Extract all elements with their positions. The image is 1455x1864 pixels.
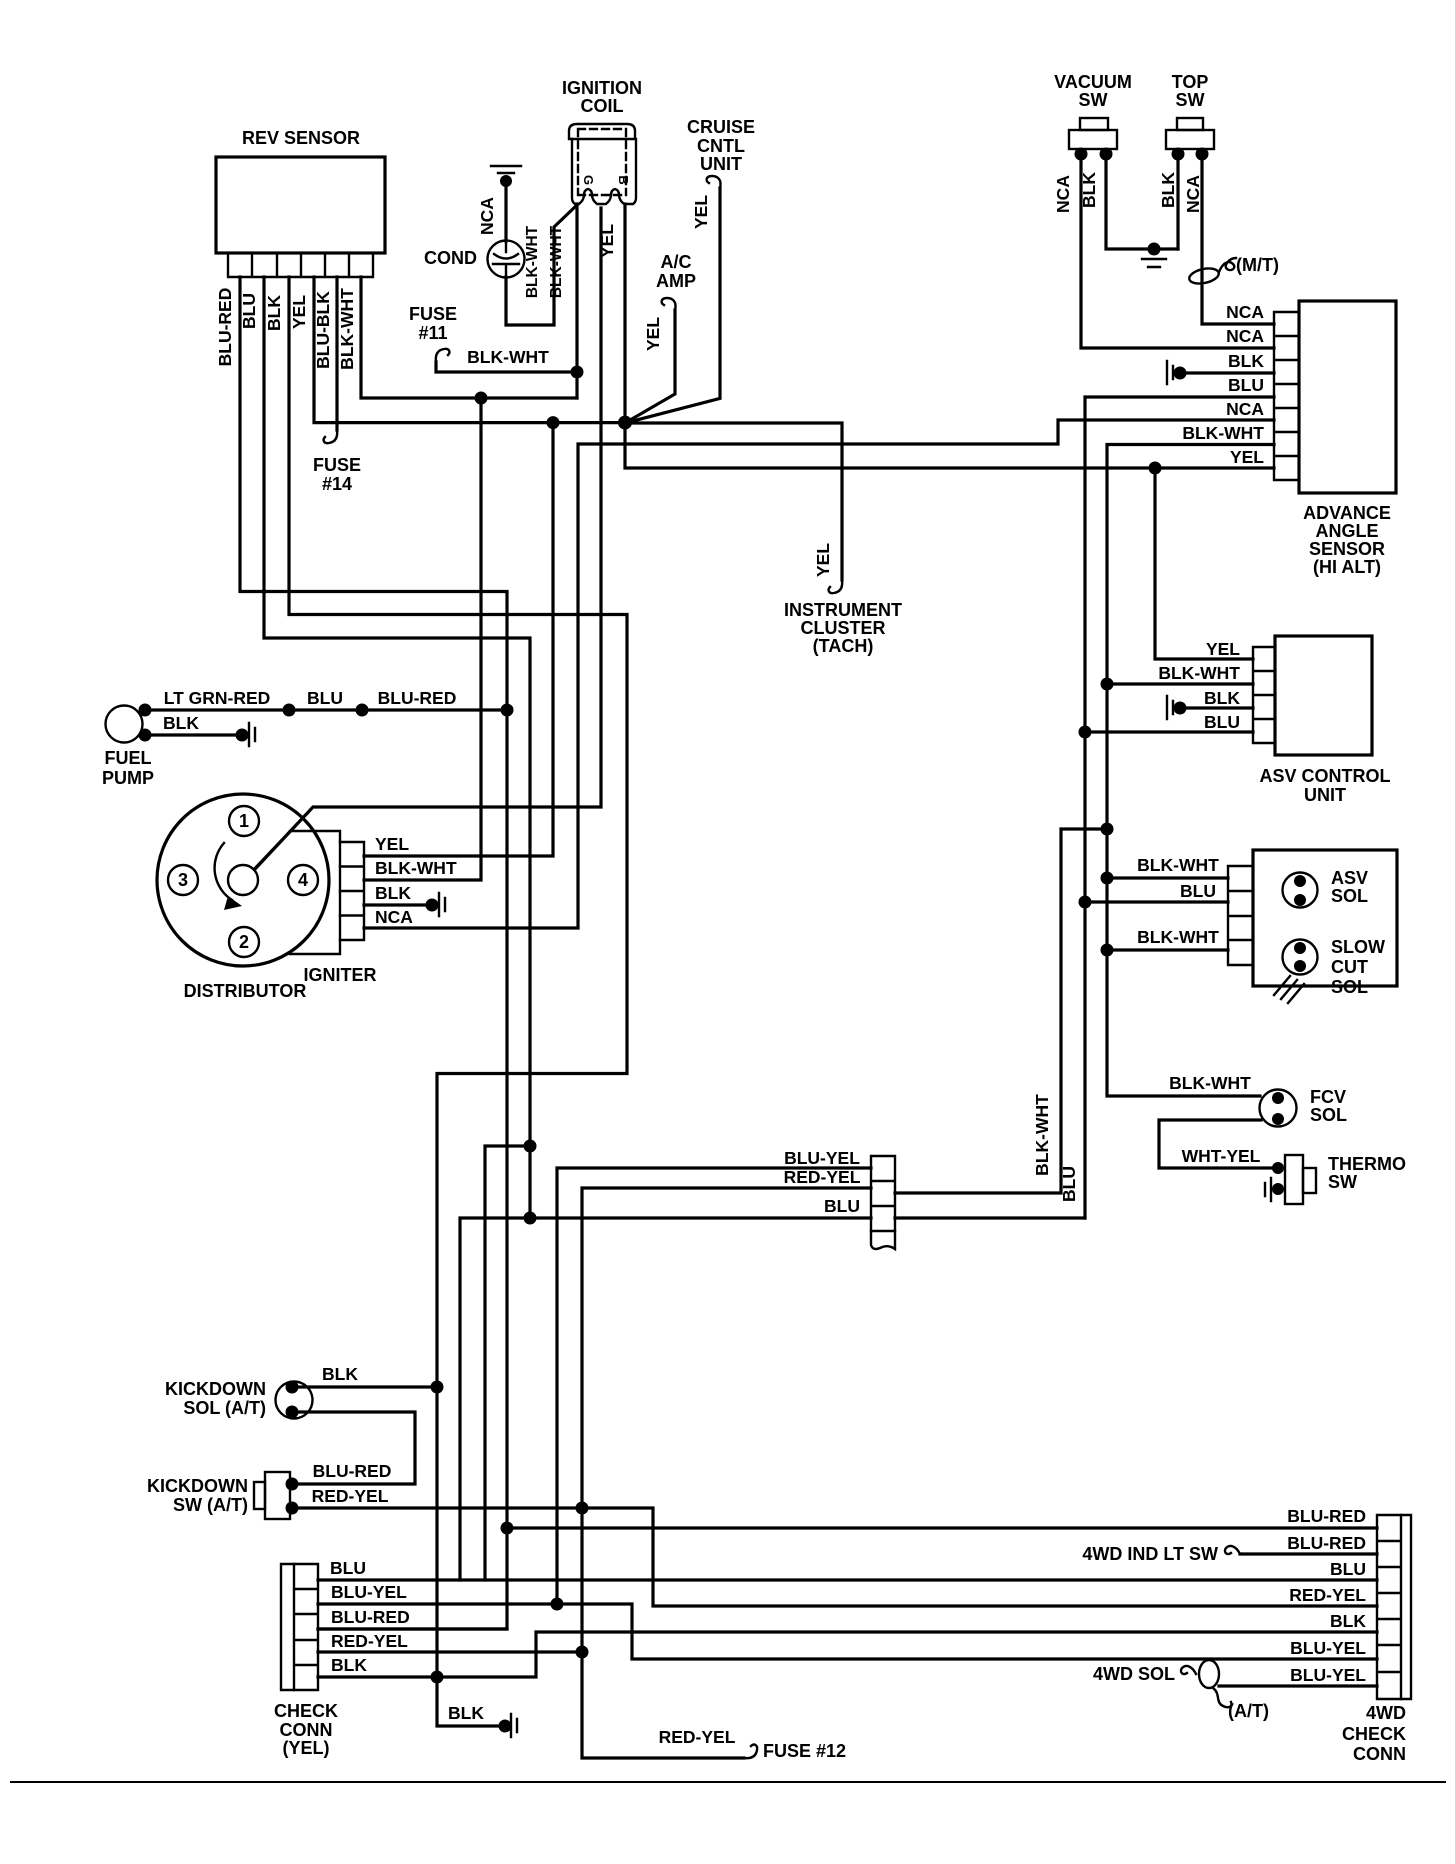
ASV control pin row — [1253, 647, 1275, 743]
ground above COND — [491, 166, 521, 173]
svg-text:BLK-WHT: BLK-WHT — [1158, 663, 1240, 683]
svg-text:AMP: AMP — [656, 271, 696, 291]
svg-text:UNIT: UNIT — [1304, 785, 1346, 805]
wire BLU-RED net: REV pin1 down, right at y592, down x507 to CHECK CONN BLU-RED row — [240, 277, 507, 1629]
svg-text:PUMP: PUMP — [102, 768, 154, 788]
node main YEL junction — [618, 416, 632, 430]
svg-text:THERMO: THERMO — [1328, 1154, 1406, 1174]
svg-text:A/C: A/C — [661, 252, 692, 272]
svg-text:FUSE #12: FUSE #12 — [763, 1741, 846, 1761]
inline connector oval M/T — [1188, 266, 1220, 286]
wire fuel pump feed line — [145, 708, 507, 711]
svg-text:(TACH): (TACH) — [813, 636, 874, 656]
ground igniter — [426, 899, 439, 912]
solenoid box ASV/SLOW CUT — [1253, 850, 1397, 986]
CHECK CONN shell — [281, 1564, 294, 1690]
ignition coil body — [569, 124, 636, 204]
svg-text:BLK-WHT: BLK-WHT — [1032, 1094, 1052, 1176]
instrument cluster hook — [829, 580, 843, 593]
wire WHT-YEL FCV to thermo — [1159, 1120, 1277, 1168]
svg-text:YEL: YEL — [691, 195, 711, 229]
svg-text:CLUSTER: CLUSTER — [801, 618, 886, 638]
wire BLK-WHT to ASV SOL — [1107, 876, 1228, 879]
node igniter BLK-WHT feed branches at x481 — [475, 392, 488, 405]
svg-text:BLU-RED: BLU-RED — [331, 1607, 410, 1627]
KICKDOWN SOL circle — [276, 1382, 313, 1419]
svg-text:NCA: NCA — [1053, 175, 1073, 213]
svg-text:SW: SW — [1079, 90, 1108, 110]
FCV SOL circle — [1260, 1090, 1297, 1127]
wire BLU branch left-down x460 to CHECK CONN BLU row — [460, 1218, 530, 1580]
node fuel line 2 — [356, 704, 369, 717]
svg-text:BLK-WHT: BLK-WHT — [467, 347, 549, 367]
svg-text:INSTRUMENT: INSTRUMENT — [784, 600, 902, 620]
wire check conn BLU-RED row — [318, 1627, 507, 1630]
top switch symbol — [1166, 118, 1214, 149]
svg-text:CONN: CONN — [280, 1720, 333, 1740]
svg-text:FUEL: FUEL — [105, 748, 152, 768]
wire ASV pin2 BLK-WHT — [1107, 682, 1253, 685]
svg-text:IGNITION: IGNITION — [562, 78, 642, 98]
svg-text:YEL: YEL — [375, 834, 409, 854]
svg-text:FUSE: FUSE — [409, 304, 457, 324]
svg-text:FCV: FCV — [1310, 1087, 1346, 1107]
svg-text:4WD: 4WD — [1366, 1703, 1406, 1723]
wire YEL from advance line down to ASV control pin1 — [1155, 468, 1253, 659]
middle connector pin boxes — [871, 1156, 895, 1231]
svg-text:BLU-YEL: BLU-YEL — [1290, 1665, 1366, 1685]
svg-text:BLK: BLK — [1204, 688, 1240, 708]
svg-text:CNTL: CNTL — [697, 136, 745, 156]
SLOW CUT hatch marks — [1274, 976, 1304, 1003]
CRUISE hook — [707, 176, 721, 188]
svg-text:CHECK: CHECK — [1342, 1724, 1406, 1744]
node YEL tach branch at junction horizontal — [547, 416, 560, 429]
wire vacuum NCA down to advance pin2 — [1081, 154, 1274, 348]
svg-text:ADVANCE: ADVANCE — [1303, 503, 1391, 523]
node BLU to ASV control — [1079, 726, 1092, 739]
svg-text:RED-YEL: RED-YEL — [784, 1167, 861, 1187]
svg-text:G: G — [581, 175, 596, 185]
wire check conn BLU-YEL row jog to 4wd pin6 — [318, 1604, 1377, 1659]
svg-text:BLU: BLU — [824, 1196, 860, 1216]
svg-text:YEL: YEL — [1230, 447, 1264, 467]
wire igniter BLK-WHT feed down x481 — [364, 398, 481, 880]
svg-text:BLK: BLK — [1228, 351, 1264, 371]
vacuum sw terminal dots — [1075, 148, 1088, 161]
svg-text:CUT: CUT — [1331, 957, 1368, 977]
4wd sol squiggle to A/T — [1213, 1688, 1232, 1707]
wire igniter BLK to ground — [364, 903, 432, 906]
thermo terminal dots — [1272, 1162, 1284, 1174]
svg-text:COIL: COIL — [581, 96, 624, 116]
middle connector tail curl — [871, 1231, 895, 1249]
svg-text:4: 4 — [298, 870, 308, 890]
top sw terminal dots — [1172, 148, 1185, 161]
svg-text:RED-YEL: RED-YEL — [312, 1486, 389, 1506]
ground at ASV pin3 — [1167, 696, 1173, 719]
wire RED-YEL: middle connector pin2 left, down to fuse 12 — [582, 1188, 871, 1758]
svg-text:BLK-WHT: BLK-WHT — [375, 858, 457, 878]
wire junction down then right to advance YEL pin7 — [625, 423, 1274, 468]
wire BLU row: connector pin3 left to x530 — [530, 1216, 871, 1219]
capacitor COND — [488, 241, 525, 278]
node BLK-WHT to ASV unit pin2 — [1101, 678, 1114, 691]
node 4WD row1 branch on BLU-RED net — [501, 1522, 514, 1535]
ground below switches — [1142, 259, 1166, 267]
svg-text:SW: SW — [1328, 1172, 1357, 1192]
svg-text:YEL: YEL — [1206, 639, 1240, 659]
svg-text:BLK: BLK — [264, 295, 284, 331]
node FUSE 11 line joins coil left vertical — [571, 366, 584, 379]
ground at advance pin3 — [1167, 361, 1173, 384]
4wd sol oval — [1199, 1660, 1219, 1688]
svg-text:(HI ALT): (HI ALT) — [1313, 557, 1381, 577]
wire ASV pin4 BLU — [1085, 730, 1253, 733]
wire check conn RED-YEL row — [318, 1650, 582, 1653]
ground fuel pump — [236, 729, 249, 742]
ADVANCE ANGLE SENSOR body — [1299, 301, 1396, 493]
svg-text:BLU: BLU — [1330, 1559, 1366, 1579]
svg-text:BLK-WHT: BLK-WHT — [337, 288, 357, 370]
svg-text:(A/T): (A/T) — [1228, 1701, 1269, 1721]
wire COND to coil left terminal — [506, 205, 577, 325]
svg-text:DISTRIBUTOR: DISTRIBUTOR — [184, 981, 307, 1001]
svg-text:BLK: BLK — [375, 883, 411, 903]
wire advance pin5 NCA left with jog to igniter — [364, 420, 1274, 928]
svg-text:BLU-RED: BLU-RED — [1287, 1506, 1366, 1526]
distributor terminal 3 — [168, 865, 198, 895]
svg-text:SENSOR: SENSOR — [1309, 539, 1385, 559]
svg-text:4WD SOL: 4WD SOL — [1093, 1664, 1175, 1684]
node BLU net branch to x485 — [524, 1140, 537, 1153]
svg-text:SW (A/T): SW (A/T) — [173, 1495, 248, 1515]
node RED-YEL check conn row junction — [576, 1646, 589, 1659]
svg-text:BLK: BLK — [322, 1364, 358, 1384]
svg-text:COND: COND — [424, 248, 477, 268]
A/C AMP hook — [662, 298, 676, 310]
wire ASV pin3 BLK to ground — [1180, 706, 1253, 709]
wire BLK-WHT to SLOW CUT SOL — [1107, 948, 1228, 951]
wire advance pin3 BLK to ground — [1180, 371, 1274, 374]
wire YEL to igniter: down x553 from junction — [364, 423, 553, 856]
svg-text:TOP: TOP — [1172, 72, 1209, 92]
node kickdown BLK joins x437 — [431, 1381, 444, 1394]
KICKDOWN SW symbol — [254, 1472, 290, 1519]
node BLU-YEL at check conn row — [551, 1598, 564, 1611]
node BLU to ASV SOL — [1079, 896, 1092, 909]
svg-text:#14: #14 — [322, 474, 352, 494]
svg-text:IGNITER: IGNITER — [303, 965, 376, 985]
svg-text:BLU-RED: BLU-RED — [215, 288, 235, 367]
svg-text:NCA: NCA — [1226, 399, 1264, 419]
wire coil left terminal vertical — [575, 204, 578, 398]
svg-text:BLK-WHT: BLK-WHT — [1169, 1073, 1251, 1093]
wire kickdown sol BLK — [292, 1385, 437, 1388]
svg-text:KICKDOWN: KICKDOWN — [165, 1379, 266, 1399]
svg-text:BLK-WHT: BLK-WHT — [1137, 855, 1219, 875]
svg-text:KICKDOWN: KICKDOWN — [147, 1476, 248, 1496]
svg-text:BLK: BLK — [1330, 1611, 1366, 1631]
svg-text:BLK: BLK — [1158, 172, 1178, 208]
svg-text:BLU: BLU — [1180, 881, 1216, 901]
svg-text:CONN: CONN — [1353, 1744, 1406, 1764]
ground thermo — [1265, 1178, 1271, 1201]
node BLU net junction at connector row — [524, 1212, 537, 1225]
wire coil right terminal YEL down to junction — [623, 204, 626, 423]
svg-text:BLK-WHT: BLK-WHT — [548, 225, 565, 298]
wire ground to COND — [504, 184, 507, 241]
wire advance pin4 BLU left and down — [1085, 397, 1274, 1218]
distributor terminal 4 — [288, 865, 318, 895]
4wd sol hook — [1181, 1666, 1196, 1674]
svg-text:NCA: NCA — [1226, 302, 1264, 322]
node YEL branch to ASV control — [1149, 462, 1162, 475]
svg-text:NCA: NCA — [477, 197, 497, 235]
wire BLK-WHT link down to middle connector pin2 — [895, 829, 1107, 1193]
IGNITER box — [290, 831, 340, 954]
svg-text:WHT-YEL: WHT-YEL — [1182, 1146, 1261, 1166]
svg-text:UNIT: UNIT — [700, 154, 742, 174]
svg-text:BLK: BLK — [448, 1703, 484, 1723]
wire check conn BLK row Z-link to 4wd pin5 — [318, 1632, 1377, 1677]
THERMO SW symbol — [1285, 1155, 1316, 1204]
wire middle connector pin3 BLU right up to advance pin4 — [895, 1216, 1085, 1219]
svg-text:SOL: SOL — [1331, 886, 1368, 906]
4WD CHECK CONN pin boxes — [1377, 1515, 1401, 1699]
svg-text:REV SENSOR: REV SENSOR — [242, 128, 360, 148]
svg-text:SOL: SOL — [1310, 1105, 1347, 1125]
node BLK-WHT to SLOW CUT SOL — [1101, 944, 1114, 957]
rotation arrowhead — [224, 896, 242, 910]
wire junction to A/C AMP — [625, 310, 675, 423]
wire coil middle terminal down to distributor — [256, 208, 601, 868]
distributor terminal 1 — [229, 806, 259, 836]
igniter pin row — [340, 842, 364, 940]
svg-text:3: 3 — [178, 870, 188, 890]
vacuum switch symbol — [1069, 118, 1117, 149]
svg-text:CRUISE: CRUISE — [687, 117, 755, 137]
REV SENSOR pin row — [228, 253, 373, 277]
wire advance pin6 BLK-WHT left and down — [1107, 445, 1274, 1097]
svg-text:ASV: ASV — [1331, 868, 1368, 888]
FUEL PUMP circle — [106, 706, 143, 743]
svg-text:SLOW: SLOW — [1331, 937, 1385, 957]
ASV CONTROL UNIT body — [1275, 636, 1372, 755]
wire junction right to instrument cluster branch — [625, 423, 842, 580]
node CHECK CONN BLK row joins x437 — [431, 1671, 444, 1684]
fuse 12 hook — [744, 1745, 757, 1759]
rotor contact line — [254, 807, 313, 869]
svg-text:BLU-YEL: BLU-YEL — [1290, 1638, 1366, 1658]
wire 4wd sol to pin7 — [1219, 1684, 1377, 1687]
wire BLK-WHT net: REV pin6 down, right at y398 to coil left terminal vertical — [361, 277, 577, 398]
fuel pump terminal dots — [139, 704, 152, 717]
svg-text:2: 2 — [239, 932, 249, 952]
svg-text:YEL: YEL — [289, 295, 309, 329]
svg-text:BLK: BLK — [163, 713, 199, 733]
svg-text:BLU: BLU — [1059, 1166, 1079, 1202]
distributor terminal 2 — [229, 927, 259, 957]
SLOW CUT SOL circle — [1283, 940, 1318, 975]
wire BLU-YEL: corner to middle connector pin1 and down to check conn row — [557, 1168, 871, 1604]
svg-text:ASV CONTROL: ASV CONTROL — [1259, 766, 1390, 786]
node BLK-WHT link to connector leg — [1101, 823, 1114, 836]
svg-text:NCA: NCA — [375, 907, 413, 927]
wire BLU net: REV pin2 down, right at y638, down x530 to BLU connector row — [264, 277, 530, 1218]
svg-text:#11: #11 — [418, 323, 447, 343]
svg-text:RED-YEL: RED-YEL — [1289, 1585, 1366, 1605]
DISTRIBUTOR circle — [157, 794, 329, 966]
svg-text:BLU-RED: BLU-RED — [378, 688, 457, 708]
node RED-YEL kickdown junction — [576, 1502, 589, 1515]
svg-text:BLK: BLK — [331, 1655, 367, 1675]
svg-text:BLK-WHT: BLK-WHT — [1137, 927, 1219, 947]
svg-text:4WD IND LT SW: 4WD IND LT SW — [1082, 1544, 1218, 1564]
wire FUSE 11 to coil — [436, 362, 577, 372]
svg-text:YEL: YEL — [643, 317, 663, 351]
wire top sw BLK down — [1176, 154, 1179, 249]
svg-text:BLU-RED: BLU-RED — [1287, 1533, 1366, 1553]
svg-text:YEL: YEL — [813, 543, 833, 577]
svg-text:ANGLE: ANGLE — [1316, 521, 1379, 541]
svg-text:B: B — [616, 175, 631, 184]
svg-text:BLU: BLU — [1228, 375, 1264, 395]
check conn pin boxes — [294, 1564, 318, 1690]
wire kickdown sw RED-YEL right to 4wd pin4 — [292, 1508, 1377, 1606]
node switches ground — [1148, 243, 1161, 256]
svg-text:LT GRN-RED: LT GRN-RED — [164, 688, 271, 708]
svg-text:BLU: BLU — [1204, 712, 1240, 732]
svg-text:1: 1 — [239, 811, 249, 831]
advance sensor pin row — [1274, 312, 1299, 480]
wire BLK net: REV pin3 down, right y614, down x627, left y1073, down x437 to ground — [289, 277, 627, 1726]
wire YEL net: REV pin4 down, right at y423 to coil junction — [314, 277, 625, 423]
svg-text:SOL: SOL — [1331, 977, 1368, 997]
svg-text:BLU-BLK: BLU-BLK — [313, 291, 333, 369]
svg-text:BLU-YEL: BLU-YEL — [784, 1148, 860, 1168]
svg-text:BLU-YEL: BLU-YEL — [331, 1582, 407, 1602]
wire BLU to ASV SOL — [1085, 900, 1228, 903]
svg-text:RED-YEL: RED-YEL — [659, 1727, 736, 1747]
solenoid connector pin row — [1228, 866, 1253, 965]
wire 4wd row1 from fuel net — [507, 1526, 1377, 1529]
wire BLU branch left-down x485 to CHECK CONN BLU row — [485, 1146, 530, 1580]
node BLK-WHT to ASV SOL — [1101, 872, 1114, 885]
bottom border rule — [10, 1781, 1446, 1783]
4wd check conn shell — [1401, 1515, 1411, 1699]
svg-text:SW: SW — [1176, 90, 1205, 110]
wire 4wd ind lt sw to pin2 — [1240, 1552, 1377, 1555]
svg-text:BLU: BLU — [330, 1558, 366, 1578]
svg-text:FUSE: FUSE — [313, 455, 361, 475]
REV SENSOR body — [216, 157, 385, 253]
wire junction to CRUISE CNTL UNIT — [625, 188, 720, 423]
svg-text:VACUUM: VACUUM — [1054, 72, 1132, 92]
svg-text:(YEL): (YEL) — [283, 1738, 330, 1758]
svg-text:NCA: NCA — [1183, 175, 1203, 213]
ASV SOL circle — [1283, 873, 1318, 908]
fuse 11 hook — [436, 349, 450, 362]
fuse 14 hook — [324, 430, 338, 443]
wire BLU-BLK: REV pin5 down to FUSE 14 — [335, 277, 338, 430]
wire vacuum BLK to ground joint — [1106, 154, 1178, 249]
svg-text:BLU-RED: BLU-RED — [313, 1461, 392, 1481]
wire top sw NCA down to advance pin1 — [1202, 154, 1274, 324]
svg-text:(M/T): (M/T) — [1236, 255, 1279, 275]
wire kickdown sol to sw BLU-RED — [292, 1412, 415, 1484]
wire fuel pump BLK to ground — [145, 733, 242, 736]
svg-text:YEL: YEL — [597, 224, 617, 258]
svg-text:CHECK: CHECK — [274, 1701, 338, 1721]
4wd ind lt sw hook — [1225, 1546, 1240, 1554]
svg-text:BLU: BLU — [239, 293, 259, 329]
svg-text:BLU: BLU — [307, 688, 343, 708]
wire check conn BLU row to 4wd pin3 — [318, 1578, 1377, 1581]
svg-text:BLK-WHT: BLK-WHT — [1182, 423, 1264, 443]
node fuel line joins BLU-RED net — [501, 704, 514, 717]
M/T squiggle — [1219, 258, 1236, 272]
svg-text:BLK-WHT: BLK-WHT — [524, 225, 541, 298]
rotation arrow arc — [215, 843, 232, 900]
distributor rotor circle — [228, 865, 258, 895]
node fuel line 1 — [283, 704, 296, 717]
ground BLK bottom — [511, 1714, 517, 1737]
svg-text:SOL (A/T): SOL (A/T) — [183, 1398, 266, 1418]
svg-text:RED-YEL: RED-YEL — [331, 1631, 408, 1651]
svg-text:NCA: NCA — [1226, 326, 1264, 346]
